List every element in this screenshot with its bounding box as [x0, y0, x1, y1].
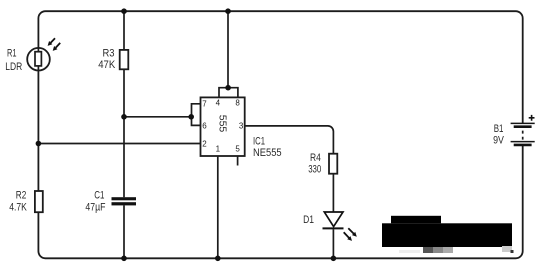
battery white gap patch	[519, 124, 527, 146]
photoresistor R1 resistor element	[35, 52, 41, 66]
svg-text:D1: D1	[303, 214, 314, 226]
wire LED cathode to bottom rail	[332, 229, 334, 258]
svg-text:4: 4	[216, 98, 221, 107]
wire bracket joining pin 4 and pin 8	[219, 88, 238, 98]
LED D1 cathode bar	[323, 227, 344, 229]
LED D1 emission arrow 2	[344, 232, 352, 241]
junction top rail / IC supply	[225, 8, 231, 14]
junction bracket pins 6-7	[188, 114, 194, 120]
svg-text:IC1: IC1	[253, 135, 265, 147]
junction top rail / R3	[121, 8, 127, 14]
svg-text:555: 555	[216, 115, 228, 133]
battery B1 plus sign	[529, 115, 535, 121]
battery B1 cell 1 negative plate	[514, 125, 532, 128]
junction bracket pins 4-8	[225, 85, 231, 91]
wire R3/C1 vertical (top rail to C1 top plate)	[123, 11, 125, 197]
capacitor C1 bottom plate	[112, 202, 137, 205]
wire node between R3/C1 to pins 6-7 bracket	[124, 116, 192, 118]
svg-text:47µF: 47µF	[85, 201, 105, 213]
svg-text:6: 6	[202, 121, 207, 130]
svg-text:B1: B1	[494, 123, 504, 135]
watermark remnant gray 1	[423, 247, 433, 253]
svg-text:C1: C1	[94, 190, 104, 202]
svg-text:R2: R2	[16, 190, 27, 202]
svg-text:9V: 9V	[493, 135, 504, 147]
LED D1 emission arrow 1	[348, 228, 357, 237]
photoresistor R1 light arrow 1	[48, 38, 55, 46]
watermark remnant gray 2	[433, 247, 443, 253]
resistor R4 body	[329, 154, 337, 174]
svg-text:2: 2	[202, 140, 207, 149]
svg-text:4.7K: 4.7K	[9, 201, 27, 213]
watermark redaction block upper	[391, 216, 441, 224]
watermark remnant gray 4	[399, 250, 420, 253]
junction bottom rail / C1	[121, 255, 127, 261]
wire pin 2 to left rail	[38, 143, 200, 145]
svg-text:7: 7	[202, 100, 207, 109]
junction R3 / C1 / threshold wire	[121, 114, 127, 120]
svg-text:3: 3	[239, 121, 244, 130]
LED D1 triangle	[324, 212, 343, 227]
wire pin 3 to R4 top	[245, 126, 334, 154]
wire C1 bottom plate to bottom rail	[123, 205, 125, 258]
svg-text:1: 1	[216, 145, 221, 154]
junction left rail / pin 2 wire	[36, 141, 42, 147]
svg-text:8: 8	[235, 98, 240, 107]
photoresistor R1 lead through circle	[37, 48, 39, 71]
battery B1 dotted cell separator	[522, 131, 524, 140]
watermark remnant gray 3	[443, 247, 453, 253]
svg-text:R4: R4	[310, 152, 321, 164]
photoresistor R1 circle body	[27, 48, 50, 71]
capacitor C1 top plate	[112, 197, 137, 200]
wire pin 1 to bottom rail	[217, 156, 219, 258]
resistor R2 body	[35, 191, 43, 212]
svg-text:NE555: NE555	[253, 147, 282, 159]
svg-text:5: 5	[235, 145, 240, 154]
wire R4 bottom to LED anode	[332, 174, 334, 212]
battery B1 cell 2 positive plate	[511, 141, 535, 143]
watermark remnant speck	[511, 250, 514, 253]
junction bottom rail / pin 1	[215, 255, 221, 261]
svg-text:47K: 47K	[98, 59, 116, 71]
junction bottom rail / LED	[331, 255, 337, 261]
battery B1 cell 1 positive plate	[511, 122, 535, 124]
wire top rail to pins 4-8 bracket	[227, 11, 229, 88]
svg-text:330: 330	[308, 163, 321, 175]
photoresistor R1 light arrow 2	[53, 43, 61, 51]
battery B1 cell 2 negative plate	[514, 144, 532, 147]
wire pin 5 stub	[237, 156, 239, 166]
watermark remnant gray 5	[502, 246, 512, 252]
svg-text:LDR: LDR	[5, 61, 22, 73]
wire bracket joining pin 7 and pin 6	[192, 104, 201, 126]
op IC1 NE555 body	[201, 97, 245, 156]
watermark redaction block main	[382, 223, 512, 247]
svg-text:R1: R1	[7, 48, 17, 60]
resistor R3 body	[120, 50, 129, 69]
svg-text:R3: R3	[103, 47, 115, 59]
